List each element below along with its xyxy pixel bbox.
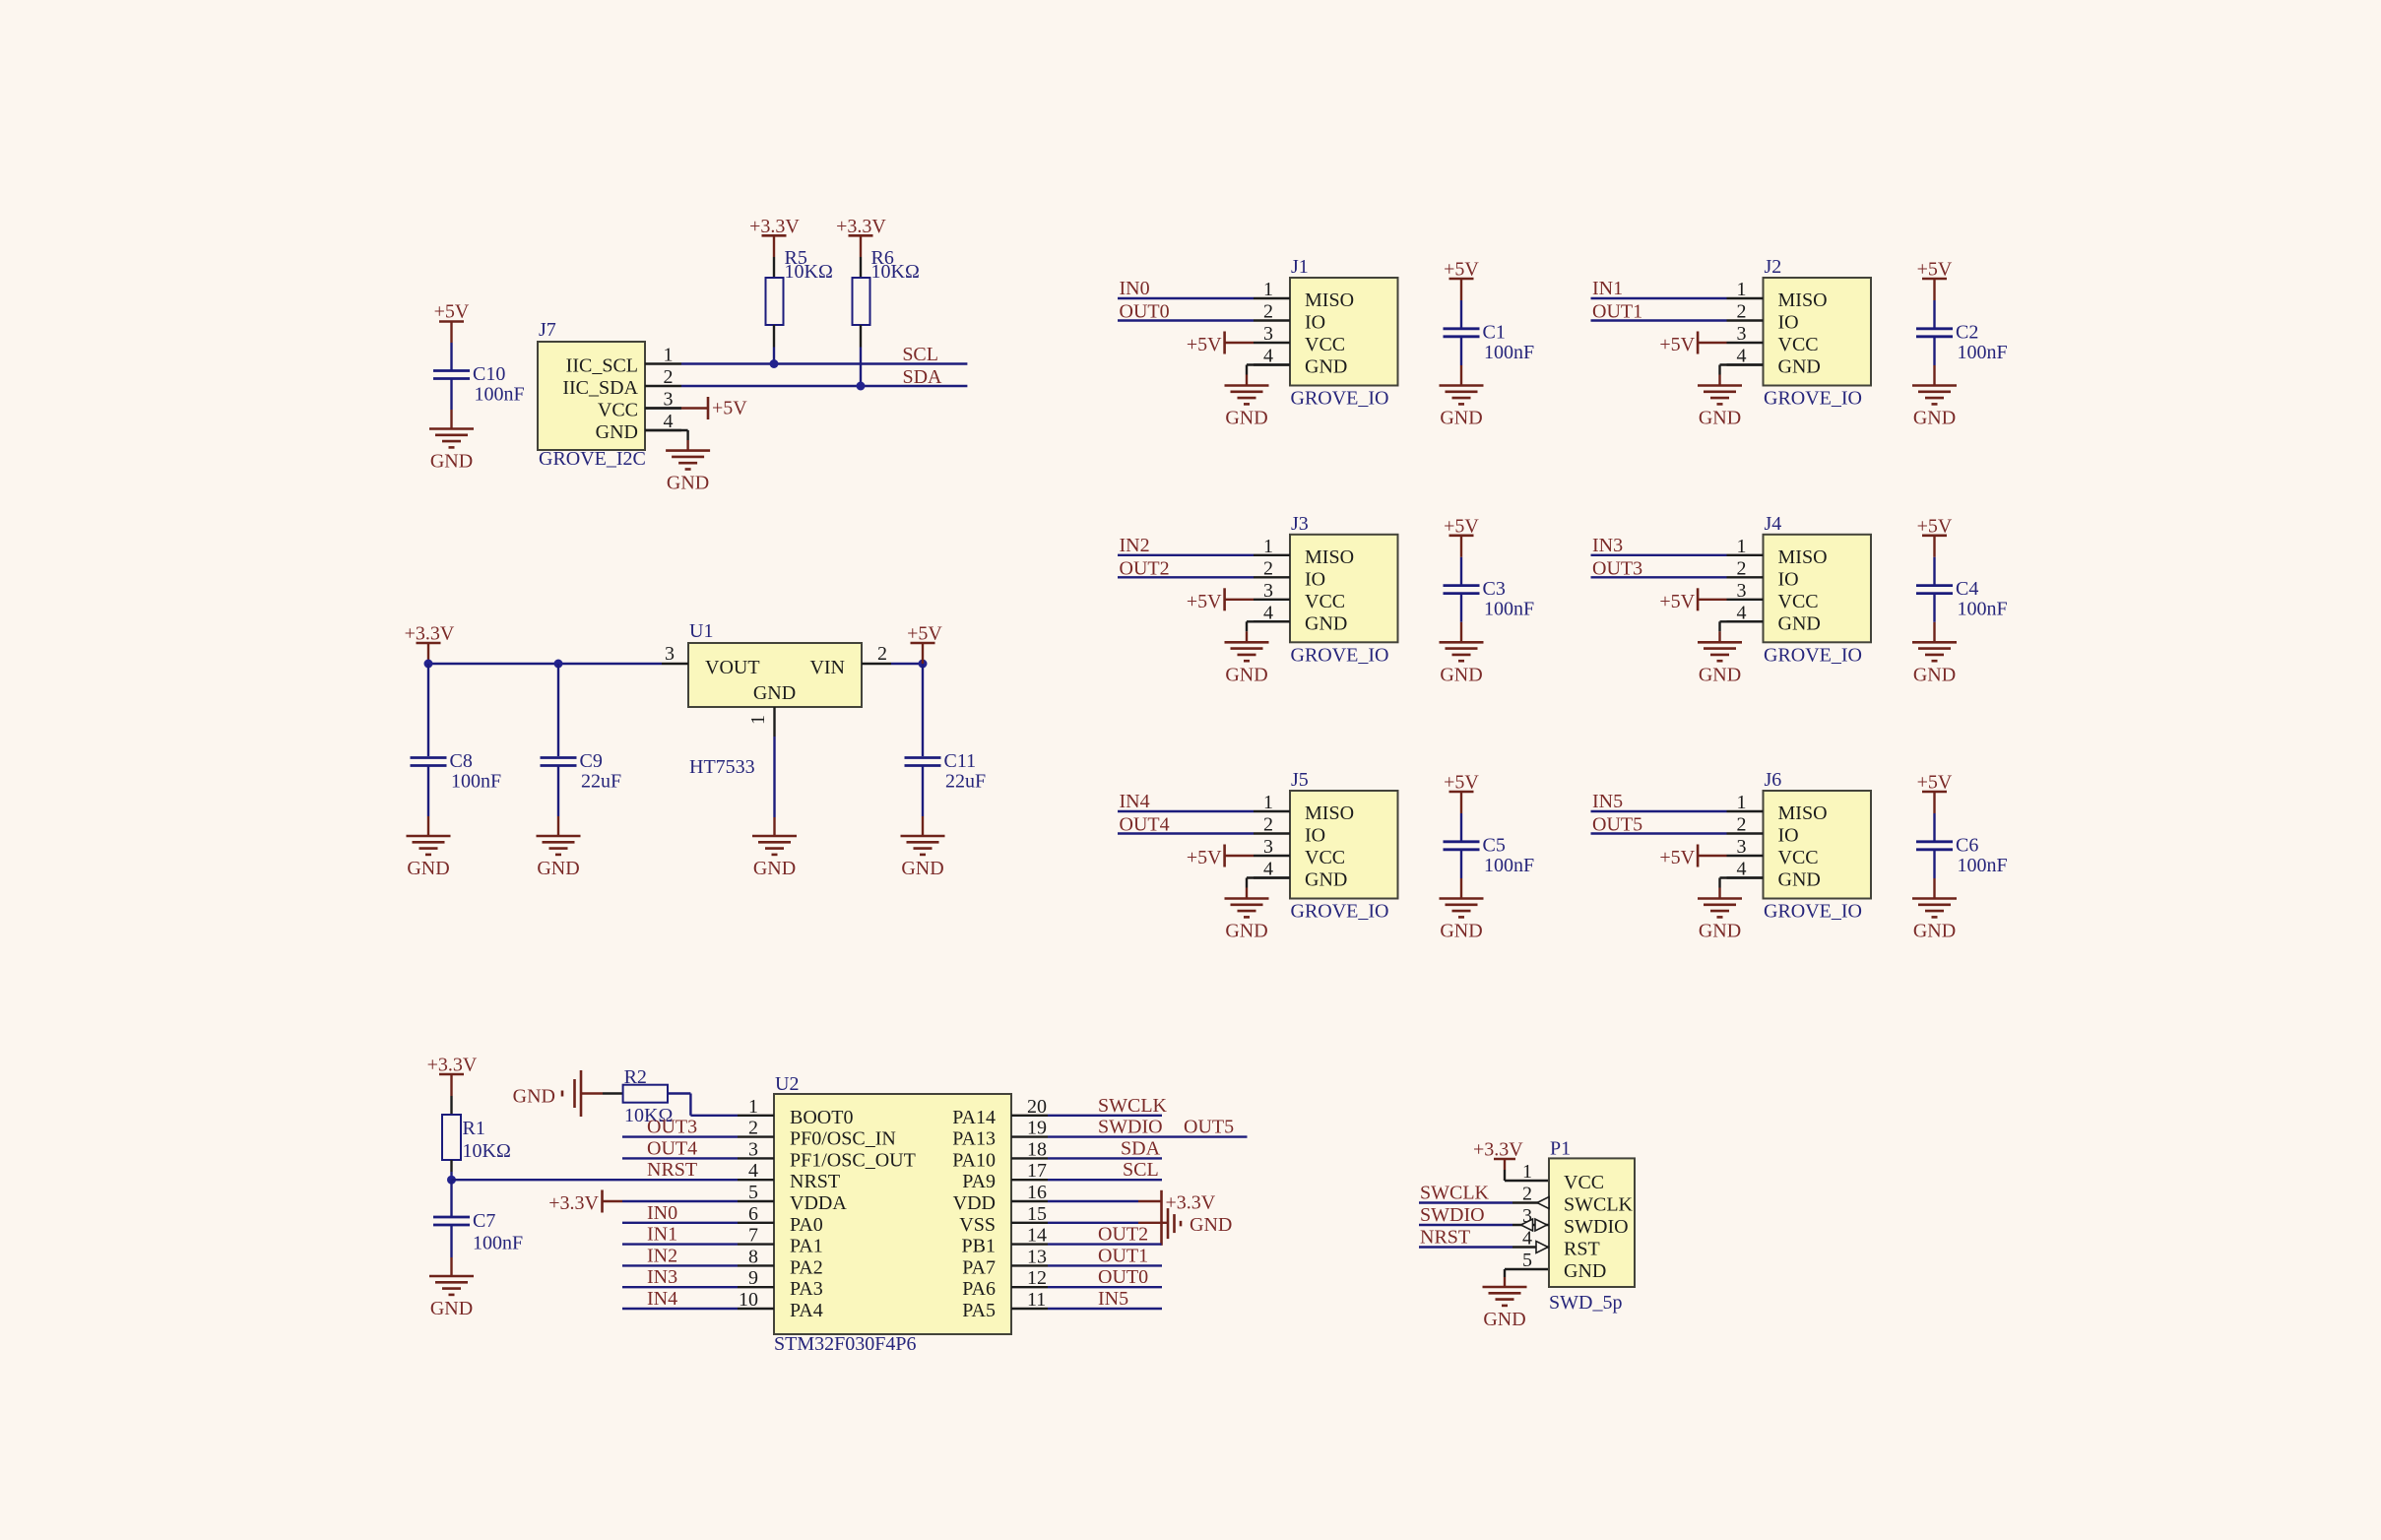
wire SDA from U2 pin 18 [1048,1157,1162,1159]
svg-text:VIN: VIN [809,657,845,678]
svg-text:GND: GND [1778,356,1821,378]
svg-text:+5V: +5V [434,301,470,323]
svg-text:IN0: IN0 [647,1202,677,1224]
ground for U1 [752,836,797,879]
svg-text:GND: GND [1225,664,1267,685]
power +5V for C2 [1917,259,1953,281]
junction C9 [554,660,563,669]
wire +3.3V to R1 [450,1074,452,1115]
svg-text:C4: C4 [1956,578,1978,600]
ground for C1 [1440,386,1484,429]
wire IN3 to J4 pin 1 [1591,554,1727,556]
svg-text:2: 2 [1263,557,1273,579]
svg-text:PF0/OSC_IN: PF0/OSC_IN [790,1128,896,1150]
wire C4 to GND [1933,594,1935,643]
wire C11 branch [922,664,924,756]
ground for J7 [666,451,710,494]
svg-text:18: 18 [1027,1138,1047,1160]
wire SCL net from J7 pin 1 [681,362,967,364]
wire J2 pin 4 to GND [1720,365,1764,386]
svg-text:IIC_SCL: IIC_SCL [566,355,638,377]
svg-text:STM32F030F4P6: STM32F030F4P6 [774,1333,917,1355]
wire R5 to SCL [773,325,775,364]
connector J5 GROVE_IO [1254,769,1398,923]
svg-text:GND: GND [753,682,796,704]
power +3.3V for U2 VDDA pin 5 [548,1190,738,1215]
wire C5 to GND [1460,850,1462,899]
svg-text:3: 3 [664,389,674,411]
svg-text:PA9: PA9 [962,1171,996,1192]
svg-text:SWDIO: SWDIO [1420,1204,1485,1226]
svg-text:IN2: IN2 [647,1245,677,1266]
connector J6 GROVE_IO [1727,769,1872,923]
ground for C2 [1912,386,1957,429]
wire +5V to C10 [450,322,452,370]
svg-text:GND: GND [1305,869,1347,891]
ground for J2 [1698,386,1742,429]
svg-text:2: 2 [1263,301,1273,323]
svg-text:GND: GND [1440,921,1482,942]
svg-text:4: 4 [1263,602,1273,623]
svg-text:U2: U2 [775,1073,799,1095]
wire VDD to +3.3V [1048,1200,1162,1202]
svg-text:GND: GND [753,858,796,879]
ground for J4 [1698,642,1742,685]
svg-text:GND: GND [1699,664,1741,685]
svg-text:IO: IO [1305,825,1325,847]
svg-text:R1: R1 [463,1118,485,1139]
svg-text:1: 1 [1737,279,1747,300]
svg-text:100nF: 100nF [1484,342,1534,363]
ground for C8 [407,836,451,879]
connector J1 GROVE_IO [1254,256,1398,410]
wire C8 branch [427,664,429,756]
svg-text:2: 2 [1737,301,1747,323]
svg-text:GROVE_IO: GROVE_IO [1291,901,1389,923]
power +3.3V at U1 output [405,623,455,645]
svg-text:IN3: IN3 [1592,535,1623,556]
svg-text:GND: GND [1913,664,1956,685]
wire OUT5 to J6 pin 2 [1591,832,1727,834]
wire SWDIO to P1 pin 3 [1419,1224,1512,1226]
svg-text:VCC: VCC [1305,591,1345,612]
svg-text:3: 3 [665,643,675,665]
svg-text:SWCLK: SWCLK [1564,1194,1634,1216]
svg-text:PA4: PA4 [790,1300,823,1321]
svg-text:PF1/OSC_OUT: PF1/OSC_OUT [790,1149,916,1171]
svg-text:C3: C3 [1483,578,1506,600]
svg-text:VDD: VDD [953,1192,996,1214]
wire C8 to GND [427,766,429,836]
svg-text:GND: GND [1778,612,1821,634]
wire IN2 to U2 pin 8 [622,1264,738,1266]
svg-text:IN5: IN5 [1098,1288,1128,1310]
svg-text:+5V: +5V [1917,772,1953,794]
svg-text:4: 4 [1737,602,1747,623]
svg-text:MISO: MISO [1778,289,1828,311]
node VOUT rail [428,663,662,665]
svg-text:VCC: VCC [1305,334,1345,355]
wire J1 pin 4 to GND [1247,365,1290,386]
svg-text:IN1: IN1 [647,1224,677,1246]
svg-text:4: 4 [748,1160,758,1182]
svg-text:6: 6 [748,1203,758,1225]
svg-text:10KΩ: 10KΩ [785,261,833,283]
svg-text:NRST: NRST [790,1171,840,1192]
ground for C9 [537,836,581,879]
resistor R1 10K [442,1115,511,1162]
svg-text:GND: GND [1440,408,1482,429]
svg-text:U1: U1 [689,620,713,642]
svg-text:PA7: PA7 [962,1256,996,1278]
power +3.3V for P1 pin 1 [1473,1139,1523,1161]
svg-text:C9: C9 [580,750,603,772]
wire +5V to C1 [1460,279,1462,328]
svg-text:GND: GND [430,451,473,473]
junction R6-SDA [857,382,866,391]
ground for C4 [1912,642,1957,685]
svg-text:IO: IO [1305,312,1325,334]
svg-text:SCL: SCL [1123,1159,1159,1181]
svg-text:GND: GND [1913,921,1956,942]
svg-text:1: 1 [1522,1161,1532,1183]
svg-text:3: 3 [1737,580,1747,602]
svg-text:C7: C7 [473,1210,495,1232]
svg-text:RST: RST [1564,1239,1600,1260]
svg-text:J4: J4 [1765,513,1782,535]
svg-text:GND: GND [1190,1214,1232,1236]
svg-text:+5V: +5V [1659,334,1695,355]
svg-text:+5V: +5V [1187,847,1222,868]
svg-text:2: 2 [1737,814,1747,836]
svg-text:OUT1: OUT1 [1098,1245,1148,1266]
svg-text:PA1: PA1 [790,1236,823,1257]
svg-text:GROVE_I2C: GROVE_I2C [539,448,646,470]
capacitor C3 100nF [1444,578,1535,620]
wire OUT3 to J4 pin 2 [1591,576,1727,578]
pin 4 output arrow [1536,1242,1548,1253]
svg-text:GND: GND [407,858,449,879]
svg-text:2: 2 [1522,1184,1532,1205]
power +3.3V for U2 VDD pin 16 [1162,1190,1216,1246]
wire U1 pin 1 to GND [773,737,775,836]
svg-text:3: 3 [1263,580,1273,602]
svg-text:GROVE_IO: GROVE_IO [1291,388,1389,410]
ground for C10 [429,429,474,473]
wire +5V to C3 [1460,536,1462,585]
svg-text:SWCLK: SWCLK [1420,1183,1490,1204]
svg-text:10KΩ: 10KΩ [463,1140,511,1162]
svg-text:+5V: +5V [1187,334,1222,355]
svg-text:HT7533: HT7533 [689,756,755,778]
svg-text:C2: C2 [1956,321,1978,343]
svg-text:100nF: 100nF [451,771,501,793]
svg-text:SCL: SCL [902,344,938,365]
wire IN5 to J6 pin 1 [1591,810,1727,812]
svg-text:GND: GND [1699,921,1741,942]
wire +5V to C2 [1933,279,1935,328]
svg-text:100nF: 100nF [1958,599,2008,620]
svg-text:+5V: +5V [907,623,942,645]
svg-text:GND: GND [596,421,638,443]
wire OUT0 from U2 pin 12 [1048,1286,1162,1288]
svg-text:J6: J6 [1765,769,1782,791]
svg-text:IO: IO [1778,568,1799,590]
wire +3.3V to P1 pin 1 [1505,1159,1549,1181]
svg-text:VCC: VCC [1564,1172,1604,1193]
svg-text:100nF: 100nF [1484,599,1534,620]
svg-text:16: 16 [1027,1182,1047,1203]
wire GND to R2 [581,1092,623,1094]
wire IN4 to J5 pin 1 [1118,810,1254,812]
power +5V for C3 [1444,515,1479,537]
capacitor C2 100nF [1916,321,2008,363]
svg-text:1: 1 [1737,792,1747,813]
svg-text:10: 10 [739,1289,758,1311]
svg-text:SWCLK: SWCLK [1098,1095,1168,1117]
capacitor C8 100nF [411,750,502,793]
capacitor C1 100nF [1444,321,1535,363]
svg-text:100nF: 100nF [1484,855,1534,876]
wire NRST node to C7 [450,1180,452,1216]
wire OUT1 from U2 pin 13 [1048,1264,1162,1266]
wire C7 to GND [450,1226,452,1276]
svg-text:GROVE_IO: GROVE_IO [1764,901,1862,923]
wire IN0 to J1 pin 1 [1118,297,1254,299]
wire C1 to GND [1460,337,1462,386]
power +3.3V for R5 [749,216,800,237]
MCU U2 STM32F030F4P6 [738,1073,1048,1334]
svg-text:14: 14 [1027,1225,1047,1247]
power +5V for C10 [434,301,470,323]
svg-text:OUT2: OUT2 [1098,1224,1148,1246]
svg-text:MISO: MISO [1305,546,1354,568]
wire C9 branch [557,664,559,756]
svg-text:OUT5: OUT5 [1592,814,1642,836]
svg-text:PB1: PB1 [962,1236,996,1257]
power +5V for C1 [1444,259,1479,281]
svg-text:100nF: 100nF [473,1233,523,1254]
connector J3 GROVE_IO [1254,513,1398,667]
svg-text:C5: C5 [1483,834,1506,856]
power +5V for C6 [1917,772,1953,794]
resistor R5 10K [766,247,833,325]
svg-text:100nF: 100nF [1958,855,2008,876]
resistor R6 10K [853,247,920,325]
svg-text:SWDIO: SWDIO [1098,1117,1163,1138]
wire SWCLK to P1 pin 2 [1419,1201,1512,1203]
svg-text:1: 1 [1263,279,1273,300]
wire C2 to GND [1933,337,1935,386]
svg-text:VOUT: VOUT [705,657,760,678]
wire R6 to SDA [860,325,862,386]
svg-text:+3.3V: +3.3V [1166,1192,1216,1214]
capacitor C6 100nF [1916,834,2008,876]
power +5V for C4 [1917,515,1953,537]
power +5V at U1 input [907,623,942,665]
connector J2 GROVE_IO [1727,256,1872,410]
ground for C5 [1440,899,1484,942]
svg-text:C1: C1 [1483,321,1506,343]
svg-text:MISO: MISO [1305,802,1354,824]
wire OUT2 from U2 pin 14 [1048,1243,1162,1245]
svg-text:+5V: +5V [712,398,747,419]
ground for R2 (rotated left) [513,1070,581,1117]
wire J7 pin 4 to GND [645,430,688,451]
svg-text:5: 5 [748,1182,758,1203]
svg-text:4: 4 [1263,859,1273,880]
junction C11 [919,660,928,669]
svg-text:SDA: SDA [902,366,942,388]
wire SDA net from J7 pin 2 [681,385,967,387]
svg-text:NRST: NRST [1420,1227,1470,1249]
wire J3 pin 4 to GND [1247,621,1290,642]
svg-text:+5V: +5V [1917,259,1953,281]
svg-text:GROVE_IO: GROVE_IO [1291,644,1389,666]
svg-text:VSS: VSS [959,1214,996,1236]
capacitor C7 100nF [433,1210,523,1254]
wire IN5 from U2 pin 11 [1048,1308,1162,1310]
svg-text:J7: J7 [539,319,556,341]
svg-text:C6: C6 [1956,834,1978,856]
power +5V for J1 pin 3 [1187,332,1254,356]
wire P1 pin 5 to GND [1505,1269,1549,1287]
svg-text:IO: IO [1778,825,1799,847]
wire IN3 to U2 pin 9 [622,1286,738,1288]
svg-text:+3.3V: +3.3V [1473,1139,1523,1161]
connector J4 GROVE_IO [1727,513,1872,667]
svg-text:22uF: 22uF [581,771,621,793]
svg-text:P1: P1 [1550,1137,1571,1159]
wire OUT4 to U2 pin 3 [622,1157,738,1159]
svg-text:OUT0: OUT0 [1098,1266,1148,1288]
svg-text:17: 17 [1027,1160,1047,1182]
svg-text:13: 13 [1027,1246,1047,1267]
svg-text:5: 5 [1522,1250,1532,1271]
wire VIN to +5V node [891,663,923,665]
ground for J6 [1698,899,1742,942]
svg-text:+5V: +5V [1659,847,1695,868]
svg-text:+5V: +5V [1917,515,1953,537]
svg-text:GND: GND [901,858,943,879]
svg-text:BOOT0: BOOT0 [790,1107,853,1128]
wire +5V to C5 [1460,792,1462,841]
wire J5 pin 4 to GND [1247,878,1290,899]
svg-text:2: 2 [1263,814,1273,836]
svg-text:PA2: PA2 [790,1256,823,1278]
svg-text:7: 7 [748,1225,758,1247]
pin 2 input arrow [1537,1197,1549,1209]
svg-text:15: 15 [1027,1203,1047,1225]
junction R5-SCL [770,359,779,368]
svg-text:OUT1: OUT1 [1592,301,1642,323]
svg-text:R2: R2 [624,1066,647,1088]
wire R2 to U2 BOOT0 [668,1094,738,1116]
ground for C3 [1440,642,1484,685]
wire OUT3 to U2 pin 2 [622,1135,738,1137]
svg-text:NRST: NRST [647,1159,697,1181]
wire SWCLK from U2 pin 20 [1048,1115,1162,1117]
svg-text:OUT0: OUT0 [1120,301,1170,323]
power +5V for J5 pin 3 [1187,845,1254,869]
svg-text:IO: IO [1778,312,1799,334]
power +5V for J7 pin 3 [645,397,747,419]
svg-text:8: 8 [748,1246,758,1267]
svg-text:+5V: +5V [1659,591,1695,612]
wire J6 pin 4 to GND [1720,878,1764,899]
wire +3.3V bar to node [427,643,429,664]
svg-text:22uF: 22uF [945,771,986,793]
svg-text:VDDA: VDDA [790,1192,847,1214]
svg-text:1: 1 [747,715,769,725]
svg-text:+3.3V: +3.3V [836,216,886,237]
svg-text:3: 3 [1263,323,1273,345]
wire IN4 to U2 pin 10 [622,1308,738,1310]
svg-text:100nF: 100nF [475,384,525,406]
svg-text:3: 3 [1737,836,1747,858]
ground for J1 [1225,386,1269,429]
svg-text:1: 1 [1737,536,1747,557]
svg-text:1: 1 [1263,536,1273,557]
wire OUT1 to J2 pin 2 [1591,319,1727,321]
junction R1-NRST-C7 [447,1176,456,1185]
svg-text:MISO: MISO [1778,802,1828,824]
power +3.3V for R1 [427,1055,478,1076]
wire C3 to GND [1460,594,1462,643]
svg-text:PA13: PA13 [952,1128,996,1150]
svg-text:1: 1 [664,345,674,366]
svg-text:GND: GND [1913,408,1956,429]
svg-text:GND: GND [1225,408,1267,429]
wire NRST to U2 pin 4 [452,1179,739,1181]
svg-text:PA10: PA10 [952,1149,996,1171]
svg-text:VCC: VCC [1778,591,1819,612]
svg-text:3: 3 [748,1138,758,1160]
ground for C6 [1912,899,1957,942]
svg-text:PA14: PA14 [952,1107,996,1128]
power +5V for J4 pin 3 [1659,588,1726,612]
wire NRST to P1 pin 4 [1419,1246,1512,1248]
svg-text:VCC: VCC [1778,847,1819,868]
wire C11 to GND [922,766,924,836]
svg-text:2: 2 [877,643,887,665]
svg-text:PA0: PA0 [790,1214,823,1236]
svg-text:+3.3V: +3.3V [427,1055,478,1076]
svg-text:11: 11 [1027,1289,1046,1311]
svg-text:GND: GND [1483,1309,1525,1330]
wire +5V to C4 [1933,536,1935,585]
junction C8 [424,660,433,669]
svg-text:VCC: VCC [598,400,638,421]
svg-text:4: 4 [1263,346,1273,367]
svg-text:PA3: PA3 [790,1278,823,1300]
svg-text:4: 4 [1737,346,1747,367]
ground for J5 [1225,899,1269,942]
svg-text:PA6: PA6 [962,1278,996,1300]
svg-text:OUT3: OUT3 [647,1117,697,1138]
power +5V for J2 pin 3 [1659,332,1726,356]
wire IN2 to J3 pin 1 [1118,554,1254,556]
svg-text:OUT2: OUT2 [1120,557,1170,579]
svg-text:3: 3 [1737,323,1747,345]
resistor R2 10K [623,1066,674,1126]
svg-text:GND: GND [1778,869,1821,891]
svg-text:9: 9 [748,1267,758,1289]
svg-text:+3.3V: +3.3V [548,1192,599,1214]
wire IN1 to U2 pin 7 [622,1243,738,1245]
svg-text:GND: GND [537,858,579,879]
svg-text:MISO: MISO [1305,289,1354,311]
